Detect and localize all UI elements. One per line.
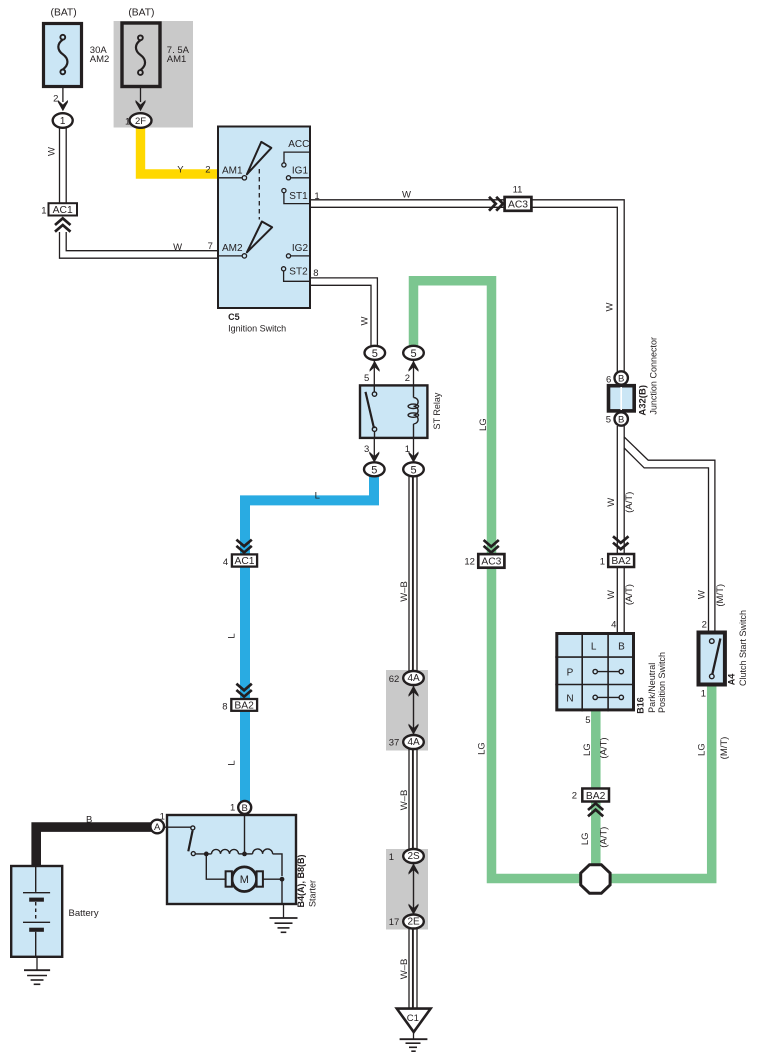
- svg-text:Starter: Starter: [308, 880, 318, 907]
- svg-text:B: B: [618, 374, 624, 385]
- svg-text:1: 1: [600, 556, 605, 567]
- svg-text:(A/T): (A/T): [624, 584, 635, 605]
- svg-text:LG: LG: [580, 832, 591, 845]
- svg-text:L: L: [227, 760, 238, 765]
- svg-text:2: 2: [53, 94, 58, 105]
- svg-text:W: W: [606, 498, 617, 507]
- svg-text:ACC: ACC: [288, 139, 309, 150]
- svg-text:LG: LG: [697, 743, 708, 756]
- svg-text:(A/T): (A/T): [599, 737, 610, 758]
- svg-text:B: B: [86, 815, 92, 826]
- svg-text:Ignition Switch: Ignition Switch: [228, 323, 286, 333]
- svg-text:2E: 2E: [407, 917, 420, 928]
- svg-text:1: 1: [41, 206, 46, 217]
- svg-text:(M/T): (M/T): [719, 737, 730, 760]
- svg-text:37: 37: [389, 738, 400, 749]
- svg-text:AM1: AM1: [222, 166, 243, 177]
- svg-text:W: W: [173, 242, 182, 253]
- svg-text:4A: 4A: [407, 673, 420, 684]
- svg-text:BA2: BA2: [611, 556, 631, 567]
- svg-text:P: P: [567, 667, 574, 678]
- svg-text:11: 11: [513, 185, 523, 196]
- svg-text:17: 17: [389, 917, 400, 928]
- svg-text:W–B: W–B: [399, 581, 410, 602]
- svg-text:AC3: AC3: [481, 557, 501, 568]
- svg-text:B4(A), B8(B): B4(A), B8(B): [296, 854, 306, 907]
- svg-text:2: 2: [205, 164, 210, 175]
- svg-text:LG: LG: [476, 742, 487, 755]
- svg-text:B: B: [242, 803, 248, 814]
- svg-text:2: 2: [572, 790, 577, 801]
- svg-text:A4: A4: [727, 674, 737, 686]
- svg-text:7: 7: [208, 241, 213, 252]
- svg-text:4: 4: [223, 557, 228, 568]
- svg-text:AC1: AC1: [53, 205, 73, 216]
- svg-text:W–B: W–B: [399, 959, 410, 980]
- svg-text:A: A: [154, 822, 161, 833]
- svg-text:W: W: [359, 316, 370, 325]
- svg-text:L: L: [227, 633, 238, 638]
- svg-text:AC3: AC3: [508, 200, 528, 211]
- svg-text:M: M: [240, 874, 249, 886]
- svg-text:2: 2: [702, 620, 707, 631]
- svg-text:5: 5: [364, 373, 369, 384]
- svg-text:W: W: [605, 302, 616, 311]
- svg-text:LG: LG: [478, 418, 489, 431]
- svg-text:1: 1: [405, 444, 410, 455]
- svg-text:ST1: ST1: [289, 191, 308, 202]
- svg-text:(BAT): (BAT): [128, 7, 154, 18]
- svg-text:W: W: [697, 590, 708, 599]
- svg-text:W: W: [46, 147, 57, 156]
- svg-text:BA2: BA2: [586, 791, 606, 802]
- svg-text:6: 6: [606, 375, 611, 386]
- svg-text:W: W: [606, 590, 617, 599]
- svg-text:1: 1: [125, 116, 130, 127]
- svg-text:8: 8: [313, 268, 318, 279]
- svg-text:LG: LG: [582, 743, 593, 756]
- svg-text:A32(B): A32(B): [637, 385, 648, 416]
- svg-text:W: W: [402, 190, 411, 201]
- svg-text:(BAT): (BAT): [51, 7, 77, 18]
- svg-text:Position Switch: Position Switch: [657, 652, 667, 713]
- svg-text:Junction Connector: Junction Connector: [649, 337, 659, 415]
- svg-text:BA2: BA2: [234, 701, 254, 712]
- svg-text:Y: Y: [177, 164, 184, 175]
- svg-text:1: 1: [701, 689, 706, 700]
- svg-text:ST2: ST2: [289, 267, 308, 278]
- svg-text:N: N: [566, 693, 573, 704]
- svg-text:5: 5: [371, 464, 377, 476]
- svg-text:IG2: IG2: [292, 243, 309, 254]
- svg-text:4: 4: [611, 619, 616, 630]
- svg-text:B: B: [618, 641, 625, 652]
- svg-text:2S: 2S: [407, 851, 420, 862]
- svg-text:1: 1: [314, 191, 319, 202]
- svg-text:8: 8: [222, 702, 227, 713]
- svg-text:1: 1: [230, 802, 235, 813]
- svg-text:(M/T): (M/T): [715, 584, 726, 607]
- svg-text:L: L: [315, 490, 320, 501]
- svg-text:B16: B16: [636, 697, 646, 714]
- svg-text:Battery: Battery: [69, 908, 99, 919]
- svg-text:3: 3: [364, 444, 369, 455]
- svg-text:12: 12: [464, 557, 475, 568]
- svg-text:(A/T): (A/T): [624, 492, 635, 513]
- svg-text:AM1: AM1: [167, 54, 187, 65]
- svg-text:1: 1: [160, 812, 165, 823]
- svg-text:L: L: [591, 641, 597, 652]
- svg-text:ST Relay: ST Relay: [432, 392, 442, 429]
- svg-text:C5: C5: [228, 312, 240, 322]
- svg-text:5: 5: [410, 464, 416, 476]
- svg-text:2F: 2F: [135, 116, 146, 127]
- svg-text:Clutch Start Switch: Clutch Start Switch: [738, 610, 748, 686]
- svg-text:5: 5: [372, 348, 378, 360]
- svg-text:Park/Neutral: Park/Neutral: [647, 663, 657, 713]
- svg-text:AM2: AM2: [222, 243, 243, 254]
- svg-text:C1: C1: [407, 1013, 419, 1024]
- svg-text:AM2: AM2: [90, 54, 110, 65]
- svg-text:62: 62: [389, 674, 400, 685]
- svg-text:AC1: AC1: [234, 556, 254, 567]
- svg-text:B: B: [618, 415, 624, 426]
- svg-text:4A: 4A: [407, 737, 420, 748]
- svg-text:1: 1: [389, 852, 394, 863]
- svg-text:1: 1: [60, 116, 66, 127]
- svg-text:5: 5: [410, 348, 416, 360]
- svg-text:IG1: IG1: [292, 166, 309, 177]
- svg-text:W–B: W–B: [399, 790, 410, 811]
- svg-text:5: 5: [585, 715, 590, 726]
- svg-text:2: 2: [405, 373, 410, 384]
- svg-text:(A/T): (A/T): [599, 827, 610, 848]
- svg-text:5: 5: [606, 415, 611, 426]
